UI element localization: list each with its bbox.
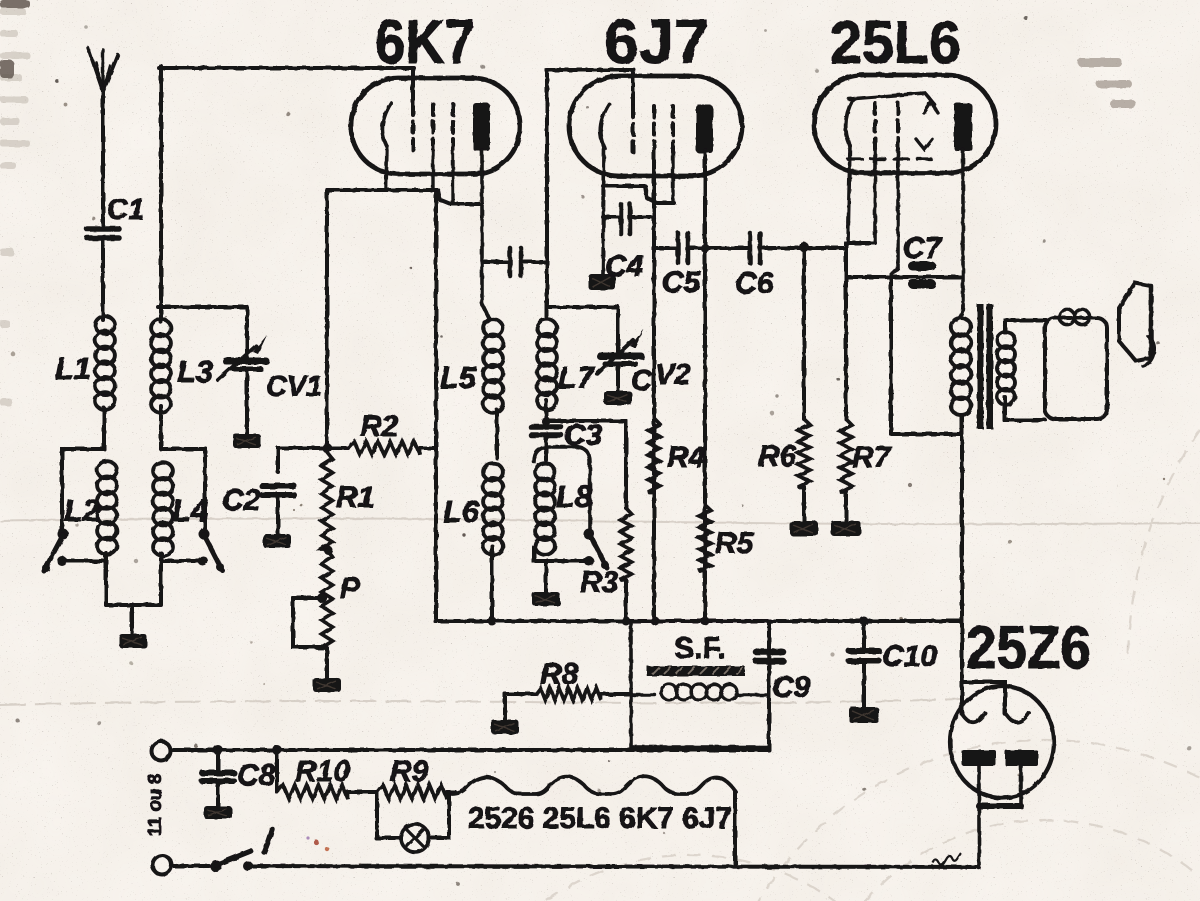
- svg-text:C5: C5: [662, 266, 702, 299]
- svg-text:R8: R8: [540, 658, 579, 691]
- svg-text:R9: R9: [390, 755, 429, 788]
- svg-text:L2: L2: [64, 493, 100, 528]
- svg-text:R6: R6: [758, 440, 797, 473]
- svg-text:S.F.: S.F.: [674, 632, 726, 665]
- svg-text:25L6: 25L6: [830, 9, 961, 76]
- svg-text:C9: C9: [772, 671, 811, 704]
- svg-text:L1: L1: [55, 351, 91, 386]
- svg-text:C2: C2: [222, 484, 261, 517]
- svg-text:L3: L3: [177, 354, 213, 389]
- svg-text:R5: R5: [715, 527, 755, 560]
- svg-text:2526 25L6 6K7 6J7: 2526 25L6 6K7 6J7: [468, 802, 732, 835]
- svg-text:L8: L8: [556, 479, 593, 514]
- svg-text:L6: L6: [443, 494, 480, 529]
- svg-text:C8: C8: [237, 759, 276, 792]
- svg-text:P: P: [340, 572, 361, 605]
- svg-text:C6: C6: [735, 267, 774, 300]
- svg-text:L4: L4: [172, 493, 208, 528]
- svg-text:R2: R2: [360, 410, 399, 443]
- svg-text:R1: R1: [336, 481, 374, 514]
- svg-text:R4: R4: [667, 441, 706, 474]
- svg-text:R7: R7: [852, 441, 892, 474]
- svg-text:11 ou 8: 11 ou 8: [144, 774, 165, 837]
- svg-text:CV1: CV1: [266, 371, 322, 403]
- svg-text:L7: L7: [558, 360, 596, 395]
- svg-text:R10: R10: [295, 755, 350, 788]
- svg-text:C1: C1: [107, 194, 144, 226]
- svg-text:C4: C4: [605, 250, 644, 283]
- svg-text:25Z6: 25Z6: [966, 614, 1091, 681]
- svg-text:C10: C10: [882, 640, 937, 673]
- svg-text:C: C: [631, 365, 653, 397]
- svg-text:6J7: 6J7: [604, 8, 709, 77]
- svg-text:R3: R3: [580, 566, 619, 599]
- svg-text:L5: L5: [440, 360, 477, 395]
- svg-text:C7: C7: [903, 232, 943, 265]
- svg-text:V2: V2: [655, 359, 690, 391]
